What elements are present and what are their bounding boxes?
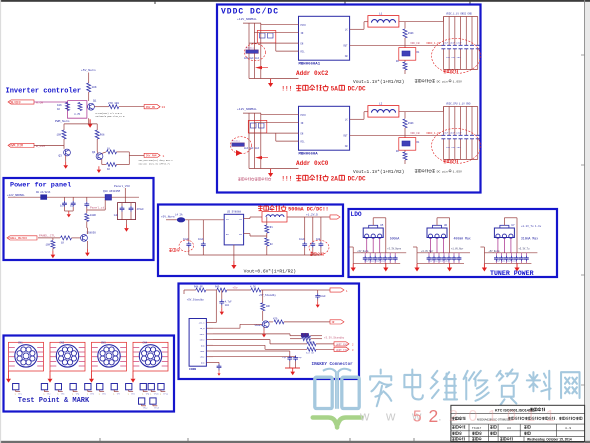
- svg-text:+5V_Norm: +5V_Norm: [81, 69, 96, 72]
- wire FB net (A): [350, 44, 444, 46]
- svg-text:Panel_VCC: Panel_VCC: [114, 184, 130, 188]
- svg-text:4 - 9: 4 - 9: [565, 426, 571, 430]
- wire gnd rail U7: [484, 253, 531, 263]
- capacitor C_U56: [393, 256, 398, 264]
- block test point border: [4, 336, 175, 412]
- resistor R12 bias: [74, 103, 82, 117]
- transistor Q5 AP4435: [87, 190, 121, 210]
- label cap values U6: [428, 260, 449, 263]
- svg-text:+12V_NORMAL: +12V_NORMAL: [237, 18, 257, 21]
- capacitor C_U74: [514, 256, 519, 264]
- node +5V_Standby mid: [259, 293, 277, 297]
- node +5V_Norm: [357, 250, 369, 253]
- wire L3 net: [250, 217, 330, 225]
- svg-text:5A: 5A: [331, 86, 339, 93]
- svg-text:IR&KEY Connector: IR&KEY Connector: [312, 362, 354, 367]
- label +5V pink: [233, 286, 238, 289]
- capacitor bank output (B): [441, 132, 479, 150]
- svg-text:Test Point & MARK: Test Point & MARK: [18, 397, 90, 405]
- wire panel out: [111, 197, 139, 203]
- wire output rail (A): [443, 17, 477, 70]
- svg-text:U6: U6: [444, 224, 448, 227]
- inductor L2: [368, 102, 399, 117]
- label Test Point & MARK: [18, 397, 90, 405]
- resistor R17: [102, 159, 130, 171]
- node +5V_Standby conn: [187, 298, 205, 302]
- svg-text:10K: 10K: [57, 134, 62, 137]
- svg-text:KEY1: KEY1: [200, 333, 206, 336]
- test point TP5: [85, 384, 95, 396]
- wire pin1 riser: [213, 290, 216, 323]
- svg-text:R10K: R10K: [408, 122, 414, 125]
- svg-text:PVCC: PVCC: [301, 24, 307, 27]
- svg-text:0uF 0uF 0uF: 0uF 0uF 0uF: [244, 147, 260, 150]
- capacitor C41: [315, 290, 326, 301]
- node +12V_NORMAL panel: [7, 194, 25, 197]
- svg-text:!!!: !!!: [281, 86, 292, 93]
- wire FB net (B): [350, 134, 444, 136]
- node Panel_VCC: [114, 184, 130, 197]
- svg-text:2 0 1 0 1 1: 2 0 1 0 1 1: [449, 408, 558, 425]
- ground input (B): [268, 169, 273, 177]
- svg-text:INV_PWM: INV_PWM: [146, 155, 157, 158]
- svg-text:VDD_FB: VDD_FB: [410, 132, 420, 135]
- svg-text:DC pin: DC pin: [437, 79, 448, 83]
- ground CN2: [48, 375, 53, 383]
- connector CN3 round: [98, 342, 120, 367]
- ferrite bead FB2: [36, 191, 51, 199]
- capacitor C44: [293, 356, 302, 369]
- note output cap placement: [309, 240, 329, 256]
- svg-text:R48 0R: R48 0R: [194, 286, 203, 289]
- svg-text:TP11: TP11: [163, 392, 169, 395]
- wire cap rail U6: [417, 253, 470, 256]
- svg-text:IR_R: IR_R: [200, 327, 206, 330]
- node VDD_FB (B): [410, 132, 440, 135]
- svg-text:U7: U7: [511, 224, 515, 227]
- ground C41: [316, 301, 320, 307]
- svg-text:CN1: CN1: [18, 342, 23, 345]
- label cap values U7: [495, 260, 516, 263]
- port AC_ON/OFF: [8, 100, 43, 105]
- svg-text:10uF: 10uF: [320, 295, 326, 298]
- test point TP3: [55, 384, 65, 396]
- resistor R31: [265, 225, 274, 238]
- svg-text:R68: R68: [100, 134, 105, 137]
- note Q1 bias values: [96, 112, 126, 118]
- capacitor C40: [219, 290, 232, 308]
- ferrite bead input (A): [245, 44, 266, 61]
- resistor R16: [102, 148, 130, 154]
- port INV_ON pin 13: [144, 105, 165, 109]
- op-amp U7 LDO: [494, 222, 515, 253]
- label current requirement (5A): [281, 85, 366, 93]
- svg-text:INV_ON: ON>2.5V OFF<0.7V: INV_ON: ON>2.5V OFF<0.7V: [138, 162, 170, 165]
- wire dcdc input: [166, 220, 224, 242]
- node +5V_Norm: [81, 69, 96, 72]
- svg-text:MBH0660A1: MBH0660A1: [299, 62, 321, 66]
- ground CN1: [6, 375, 11, 383]
- block LDO border: [349, 209, 558, 277]
- wire gnd rail U5: [353, 253, 400, 263]
- svg-text:4.7K: 4.7K: [74, 113, 81, 116]
- wire panel main rail: [8, 196, 105, 198]
- op-amp U1 MBH0660A1: [299, 16, 350, 66]
- ground Q1: [87, 119, 92, 127]
- op-amp U6 LDO: [427, 222, 448, 253]
- ground panel output: [122, 220, 131, 232]
- resistor R1 fb box (B): [399, 138, 420, 151]
- ground U5 left: [351, 264, 356, 272]
- svg-text:+5V_S: +5V_S: [198, 322, 205, 325]
- resistor R22 pulldown: [46, 238, 55, 251]
- node +1.2V out: [306, 213, 340, 219]
- svg-text:5: 5: [413, 409, 422, 426]
- wire pwm loop top: [64, 118, 97, 130]
- svg-text:R10K: R10K: [408, 32, 414, 35]
- resistor R20 gate: [84, 197, 96, 228]
- wire FB tap: [250, 234, 267, 236]
- wire left pins (B): [249, 115, 299, 141]
- svg-text:4.7K: 4.7K: [250, 286, 256, 289]
- test point TP11: [158, 384, 169, 396]
- svg-text:Vout=1.1V*(1+R1/R2): Vout=1.1V*(1+R1/R2): [353, 169, 404, 175]
- svg-text:PWM_DIM: PWM_DIM: [10, 144, 23, 148]
- ground uart caps: [285, 368, 300, 375]
- svg-text:Q1: Q1: [93, 100, 97, 103]
- capacitor C_U75: [519, 256, 524, 264]
- svg-text:+3.3V_Norm: +3.3V_Norm: [387, 247, 401, 250]
- ground R22: [51, 251, 56, 258]
- port PANEL_ON/OFF: [7, 236, 37, 240]
- label Vout formula dcdc: [244, 269, 296, 275]
- svg-text:PANEL_CTL: PANEL_CTL: [39, 235, 55, 238]
- capacitor C42 pin8: [217, 362, 222, 375]
- capacitor C_U71: [499, 256, 504, 264]
- svg-text:on/OFF/R pwm 1/1R,1V B: on/OFF/R pwm 1/1R,1V B: [96, 115, 126, 118]
- svg-text:CN4: CN4: [143, 342, 148, 345]
- node +5V_Norm: [488, 250, 500, 253]
- node output nets (A): [446, 12, 472, 15]
- svg-text:OUT: OUT: [343, 45, 348, 48]
- ground U5 mid: [383, 264, 388, 272]
- svg-text:FB2012: FB2012: [232, 140, 241, 143]
- svg-text:10K: 10K: [46, 244, 51, 247]
- svg-text:104 104 103: 104 104 103: [446, 146, 461, 149]
- resistor R40: [194, 286, 217, 293]
- capacitor C_U53: [378, 256, 383, 264]
- note input mark (A): [255, 66, 268, 69]
- capacitor bank output (A): [441, 42, 479, 60]
- connector CN4 round: [139, 342, 161, 367]
- svg-text:DC/DC: DC/DC: [348, 176, 366, 183]
- capacitor C_U70: [494, 256, 499, 264]
- capacitor C30: [183, 238, 191, 255]
- svg-text:Vout=0.6V*(1+R1/R2): Vout=0.6V*(1+R1/R2): [244, 269, 296, 275]
- svg-text:100K: 100K: [90, 214, 97, 217]
- transistor Q7 conn: [255, 321, 270, 328]
- test point TP1: [13, 384, 23, 396]
- label TUNER POWER: [490, 270, 534, 277]
- transistor Q4: [92, 151, 103, 160]
- capacitor C_U50: [363, 256, 368, 264]
- label current 310mA Max: [521, 237, 538, 241]
- svg-text:LED2: LED2: [200, 356, 206, 359]
- connector J1 8-pin: [189, 319, 213, 372]
- transistor Q1: [88, 100, 97, 111]
- note input mark (B): [255, 156, 268, 159]
- capacitor C_U51: [368, 256, 373, 264]
- test point TP13: [150, 398, 160, 410]
- capacitor C21: [70, 197, 76, 211]
- svg-text:Q3: Q3: [59, 155, 63, 158]
- note pwm spec: [138, 159, 173, 165]
- block Power for panel border: [4, 178, 154, 260]
- svg-text:1.05V: 1.05V: [453, 169, 462, 173]
- svg-text:10uF: 10uF: [198, 238, 204, 241]
- svg-text:+1.1V_Tu 1.1v: +1.1V_Tu 1.1v: [521, 225, 542, 228]
- node +12V_NORMAL (A): [237, 18, 257, 21]
- label Vout formula (A): [353, 79, 462, 85]
- svg-text:R2: R2: [270, 243, 274, 246]
- transistor Q3: [59, 149, 71, 162]
- label current requirement (2A): [281, 175, 366, 183]
- svg-text:TUNER POWER: TUNER POWER: [490, 270, 534, 277]
- test point TP6: [97, 384, 107, 396]
- ground input caps panel: [65, 211, 74, 217]
- label Addr 0xC2: [296, 70, 329, 77]
- svg-text:400mA Max: 400mA Max: [454, 237, 471, 241]
- svg-text:R46 0R: R46 0R: [306, 340, 315, 343]
- capacitor C43: [282, 356, 292, 369]
- resistor R44: [269, 317, 330, 324]
- wire key lines: [213, 334, 307, 363]
- svg-text:VDDC_1.1V GND2 GND: VDDC_1.1V GND2 GND: [446, 12, 472, 15]
- wire SW to inductor (A): [350, 17, 444, 30]
- svg-text:LED1: LED1: [200, 350, 206, 353]
- svg-text:PVCC: PVCC: [301, 114, 307, 117]
- capacitor group input (B): [244, 121, 267, 151]
- svg-text:10uF: 10uF: [299, 238, 305, 241]
- svg-text:+5V_Norm: +5V_Norm: [161, 216, 175, 219]
- ground U3: [231, 261, 236, 269]
- wire panel ctl: [38, 237, 60, 239]
- wire input loop U5: [349, 218, 386, 253]
- svg-text:OUT: OUT: [343, 135, 348, 138]
- wire bias box: [68, 101, 87, 119]
- test point TP4: [70, 384, 80, 396]
- capacitor C31: [198, 238, 206, 255]
- svg-text:VDDC_CPU 1.1V GND: VDDC_CPU 1.1V GND: [446, 102, 471, 105]
- svg-text:Addr 0xC2: Addr 0xC2: [296, 70, 329, 77]
- label standby net pink: [324, 336, 345, 340]
- resistor R2 fb lower (B): [396, 150, 407, 164]
- wire input rail (B): [243, 113, 299, 168]
- resistor R45 dual: [290, 333, 322, 340]
- svg-text:ON/OFF: ON/OFF: [10, 100, 22, 104]
- resistor R46 uart rx: [306, 340, 334, 346]
- svg-text:DC/DC: DC/DC: [348, 86, 366, 93]
- svg-text:+5v: +5v: [233, 286, 238, 289]
- ground Q6: [85, 249, 90, 256]
- node +1.8V_Nor: [451, 247, 464, 250]
- svg-text:Wednesday, October 15, 2014: Wednesday, October 15, 2014: [527, 438, 572, 442]
- capacitor C_U76: [524, 256, 529, 264]
- svg-text:Power for panel: Power for panel: [10, 182, 71, 190]
- svg-text:22p: 22p: [282, 356, 287, 359]
- svg-text:+12V_NORMAL: +12V_NORMAL: [7, 194, 25, 197]
- svg-text:470uF: 470uF: [137, 208, 145, 211]
- wire SW to inductor (B): [350, 107, 444, 120]
- svg-text:U3 SY8088: U3 SY8088: [227, 211, 241, 214]
- svg-text:!!!: !!!: [281, 176, 292, 183]
- svg-text:1K: 1K: [57, 108, 61, 111]
- wire CN2 harness: [50, 342, 85, 375]
- label panel ctl net: [39, 235, 55, 238]
- svg-text:Inverter controler: Inverter controler: [6, 88, 82, 96]
- label requirement 500mA: [258, 206, 329, 213]
- label connector title: [312, 362, 354, 367]
- svg-text:L1: L1: [379, 12, 383, 15]
- svg-text:L4 2A: L4 2A: [175, 214, 183, 217]
- label Panel_ctl: [90, 206, 106, 210]
- capacitor C_U61: [432, 256, 437, 264]
- wire conn top rail: [184, 290, 196, 294]
- svg-text:R1: R1: [270, 226, 274, 229]
- node PWM_Norm: [55, 120, 70, 123]
- inductor L3: [262, 208, 287, 222]
- capacitor C_U65: [452, 256, 457, 264]
- resistor R41: [215, 286, 251, 293]
- test point TP12: [139, 398, 149, 410]
- wire on/off to cluster: [34, 101, 68, 103]
- wire Q6 collector to R20: [86, 227, 89, 229]
- block 500mA DC/DC border: [158, 205, 343, 277]
- capacitor C_U72: [504, 256, 509, 264]
- svg-text:+3.3V_Standby: +3.3V_Standby: [324, 336, 345, 340]
- label Addr 0xC0: [296, 160, 329, 167]
- transistor Q6 SS8050: [81, 228, 97, 249]
- svg-text:+12V_NORMAL: +12V_NORMAL: [237, 108, 257, 111]
- svg-text:+5V_Standby: +5V_Standby: [187, 298, 205, 302]
- port PWM_DIM: [8, 143, 45, 148]
- svg-text:VDDC_1.1V: VDDC_1.1V: [426, 132, 440, 135]
- svg-text:500mA: 500mA: [390, 237, 400, 241]
- block connector border: [179, 284, 360, 380]
- capacitor C_U54: [383, 256, 388, 264]
- wire CN1 harness: [9, 342, 44, 375]
- svg-text:1K: 1K: [61, 242, 65, 245]
- ground U7 mid: [514, 264, 519, 272]
- label current 500mA: [390, 237, 400, 241]
- svg-text:+1.8V_Nor: +1.8V_Nor: [451, 247, 464, 250]
- wire CN3 harness: [92, 342, 127, 375]
- svg-text:3.0: 3.0: [507, 426, 511, 430]
- svg-text:R47 0R: R47 0R: [306, 351, 315, 354]
- ground Q3: [63, 162, 68, 169]
- port UART_TX0: [334, 347, 354, 352]
- node +5V_Norm dcdc: [161, 216, 175, 219]
- svg-text:VDDC_1.1V: VDDC_1.1V: [426, 42, 440, 45]
- resistor R43 pullup: [261, 290, 271, 321]
- resistor R11 bias: [57, 103, 70, 112]
- svg-text:+5V_Standby: +5V_Standby: [259, 293, 277, 297]
- wire to INV_ON port: [119, 106, 144, 108]
- svg-text:+3.3V_Tu: +3.3V_Tu: [518, 247, 530, 250]
- svg-text:10uF 104 10uF 104: 10uF 104 10uF 104: [495, 260, 516, 263]
- svg-text:TP13: TP13: [154, 407, 160, 410]
- svg-text:Vout=1.1V*(1+R1/R2): Vout=1.1V*(1+R1/R2): [353, 79, 404, 85]
- svg-text:2: 2: [429, 406, 439, 426]
- svg-text:Panel_ctl: Panel_ctl: [90, 206, 106, 210]
- wire gnd rail U6: [417, 253, 464, 263]
- svg-text:SS8050: SS8050: [87, 232, 97, 235]
- note place near IC (B): [432, 129, 481, 164]
- svg-text:KEY2: KEY2: [200, 339, 206, 342]
- resistor R13 series: [108, 102, 119, 109]
- capacitor C_U60: [427, 256, 432, 264]
- svg-text:470: 470: [273, 317, 278, 320]
- wire out caps: [305, 217, 321, 242]
- test point TP7: [111, 384, 121, 396]
- wire Q7 base: [213, 324, 262, 328]
- op-amp U5 LDO: [363, 222, 384, 253]
- capacitor C32: [299, 238, 307, 255]
- resistor R3 fb upper (A): [403, 29, 414, 48]
- svg-text:1.05V: 1.05V: [453, 79, 462, 83]
- capacitor C_U52: [373, 256, 378, 264]
- ferrite bead FB3: [175, 214, 185, 223]
- node output nets (B): [446, 102, 471, 105]
- svg-text:104 104 103: 104 104 103: [446, 56, 461, 59]
- wire output rail (B): [443, 107, 477, 160]
- ground U6 left: [414, 264, 419, 272]
- svg-text:TX-017: TX-017: [472, 426, 482, 430]
- capacitor C33: [310, 242, 315, 255]
- svg-text:10uF 10uF 10uF: 10uF 10uF 10uF: [443, 132, 462, 135]
- svg-text:1K: 1K: [107, 148, 111, 151]
- test point TP2: [41, 384, 51, 396]
- svg-text:22p: 22p: [298, 356, 303, 359]
- inductor L1: [368, 12, 399, 27]
- svg-text:TP12: TP12: [143, 407, 149, 410]
- svg-text:CON8: CON8: [189, 368, 196, 371]
- capacitor C_U66: [457, 256, 462, 264]
- svg-text:10uF 10uF 10uF: 10uF 10uF 10uF: [443, 42, 462, 45]
- svg-text:INV_ON: INV_ON: [146, 106, 156, 109]
- svg-text:DC pin: DC pin: [437, 169, 448, 173]
- svg-text:10K: 10K: [57, 104, 62, 107]
- wire cap rail U7: [484, 253, 537, 256]
- resistor R3 fb upper (B): [403, 119, 414, 138]
- capacitor C_U62: [437, 256, 442, 264]
- svg-text:1: 1: [163, 155, 165, 158]
- svg-text:FB 2A/3216: FB 2A/3216: [36, 191, 51, 194]
- svg-text:R49: R49: [215, 286, 220, 289]
- svg-text:2A: 2A: [331, 176, 339, 183]
- block Inverter controler title: [6, 88, 82, 96]
- resistor R2 fb lower (A): [396, 60, 407, 74]
- svg-text:13: 13: [162, 106, 166, 109]
- port UART_RX0: [334, 342, 354, 347]
- resistor R15: [95, 130, 105, 151]
- svg-text:500mA DC/DC!!: 500mA DC/DC!!: [288, 207, 328, 213]
- resistor R47 uart tx: [306, 347, 334, 354]
- wire Q1 to resistor: [94, 106, 108, 108]
- op-amp U3 regulator: [224, 211, 250, 262]
- ground CN4: [131, 375, 136, 383]
- resistor R1 fb box (A): [399, 48, 420, 61]
